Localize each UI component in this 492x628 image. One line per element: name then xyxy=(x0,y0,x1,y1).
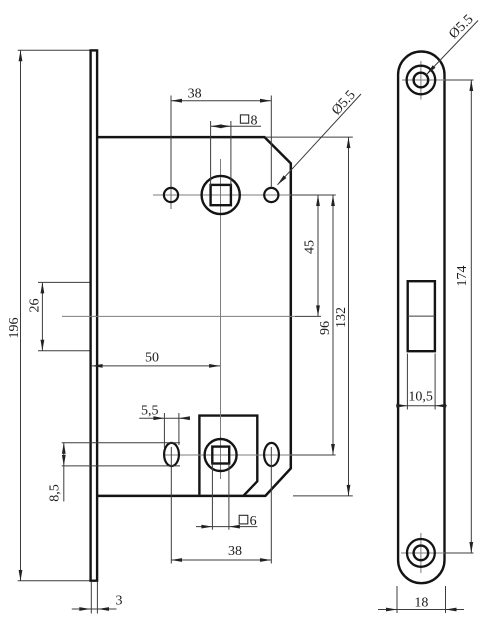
extension of top centerline (for 45/96 dims) xyxy=(291,194,336,196)
dim 3 line xyxy=(72,608,117,610)
dim 132 line xyxy=(348,137,350,496)
svg-text:50: 50 xyxy=(145,351,159,366)
dim 38 bottom line xyxy=(171,559,271,561)
dim 196 line xyxy=(20,50,22,581)
svg-text:26: 26 xyxy=(28,299,43,313)
dim 18: extensions xyxy=(396,586,398,613)
dim 3: extensions xyxy=(90,582,92,614)
hub circle bottom xyxy=(205,439,237,471)
svg-text:3: 3 xyxy=(116,594,123,609)
dim 174 line xyxy=(470,80,472,553)
top screw hole centerlines xyxy=(402,79,445,81)
top countersink xyxy=(407,66,436,95)
oval hole right xyxy=(264,443,279,466)
dim square8 line + shoulder xyxy=(211,125,261,127)
svg-text:6: 6 xyxy=(250,514,257,529)
dim 132: extension top/bottom xyxy=(265,136,353,138)
svg-text:8: 8 xyxy=(251,113,258,128)
dim 196 extension bottom xyxy=(18,580,90,582)
svg-text:10,5: 10,5 xyxy=(408,390,433,405)
dim 26 line xyxy=(41,282,43,350)
bottom countersink xyxy=(407,539,435,567)
svg-text:38: 38 xyxy=(228,544,242,559)
hub square 6mm xyxy=(212,447,229,464)
svg-text:8,5: 8,5 xyxy=(48,484,63,502)
svg-text:45: 45 xyxy=(303,240,318,254)
dim 5,5: extensions xyxy=(163,413,165,448)
dim 38 top line xyxy=(171,100,271,102)
top spindle square 8mm xyxy=(211,185,231,205)
dim 8,5: extensions xyxy=(62,442,180,444)
top spindle circle xyxy=(202,176,240,214)
top screw hole xyxy=(414,73,429,88)
lock body outline xyxy=(98,137,291,496)
svg-text:38: 38 xyxy=(188,87,202,102)
dim 45 line xyxy=(317,195,319,316)
dim 38 top: extensions xyxy=(170,96,172,187)
latch centerline xyxy=(62,315,295,317)
svg-text:5,5: 5,5 xyxy=(141,404,159,419)
oval row centerline extension (for 96) xyxy=(292,454,336,456)
dim square8: extensions xyxy=(210,121,212,186)
top right screw hole xyxy=(264,188,278,202)
bottom screw hole xyxy=(414,546,429,561)
hub housing block xyxy=(199,416,257,496)
leader dia5.5 right view xyxy=(427,21,479,75)
dim 8,5 line with tail xyxy=(63,443,65,502)
dim square6: extensions xyxy=(211,463,213,529)
centerline tick left top hole xyxy=(170,181,172,209)
dim 18 line xyxy=(378,609,464,611)
dim 5,5 line xyxy=(139,417,190,419)
dim 10,5 line xyxy=(396,405,447,407)
svg-text:174: 174 xyxy=(455,266,470,287)
faceplate plate outline xyxy=(398,52,444,584)
dim 26 extensions xyxy=(38,281,90,283)
dim 96 line xyxy=(332,195,334,455)
label square-6 xyxy=(239,515,248,524)
dim square6 line xyxy=(196,526,257,528)
oval hole left xyxy=(164,443,179,466)
svg-text:196: 196 xyxy=(7,318,22,339)
faceplate strip (side view) xyxy=(91,50,98,580)
dim 38 bottom: extensions (through ovals) xyxy=(170,447,172,564)
latch divider line xyxy=(408,315,435,317)
label square-8 xyxy=(240,115,248,123)
dim 196 extension top xyxy=(18,49,90,51)
svg-text:18: 18 xyxy=(414,596,428,611)
centerline vertical through spindles xyxy=(220,159,222,479)
latch opening xyxy=(408,281,435,351)
centerline horizontal top holes xyxy=(153,194,291,196)
dim 50 line xyxy=(92,365,221,367)
svg-text:96: 96 xyxy=(318,321,333,335)
dim 10,5: extensions xyxy=(406,354,408,410)
top left screw hole xyxy=(164,188,178,202)
bottom screw hole centerlines xyxy=(401,552,445,554)
oval row centerline xyxy=(164,454,293,456)
svg-text:132: 132 xyxy=(334,307,349,328)
leader dia5.5 left view xyxy=(278,94,362,185)
latch centerline extension xyxy=(295,315,321,317)
